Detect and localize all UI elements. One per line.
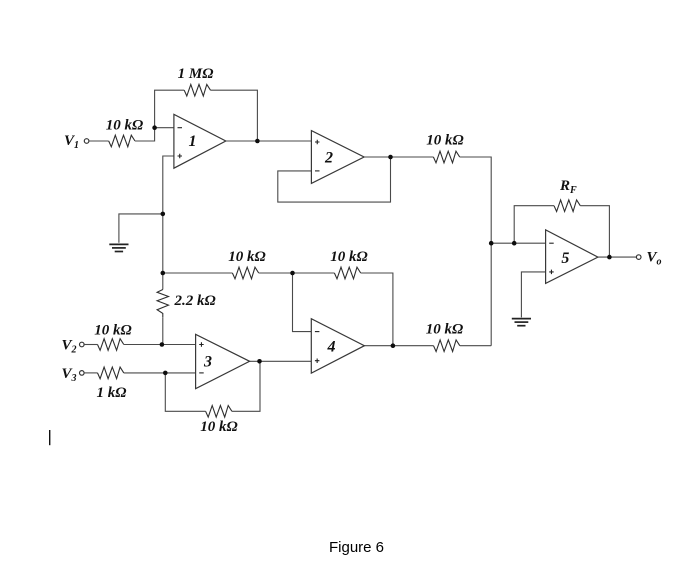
svg-text:3: 3 bbox=[203, 354, 212, 371]
node V2 terminal bbox=[80, 342, 85, 347]
svg-text:2: 2 bbox=[324, 150, 333, 167]
ground (left) bbox=[109, 244, 128, 251]
wire node to 10k (to op-amp 4) bbox=[163, 272, 233, 274]
text cursor artifact bbox=[49, 430, 50, 445]
svg-text:2.2 kΩ: 2.2 kΩ bbox=[174, 293, 216, 309]
node J7 (V2 node) bbox=[160, 342, 165, 347]
op-amp U4 bbox=[311, 319, 364, 373]
resistor 10 kOhm (op-amp 3 feedback) bbox=[206, 405, 232, 417]
pin plus U5 bbox=[549, 270, 554, 275]
svg-text:RF: RF bbox=[559, 178, 577, 196]
op-amp U2 bbox=[311, 131, 364, 184]
wire V2 R to op-amp 3 noninverting input bbox=[124, 344, 196, 346]
node V1 input terminal bbox=[84, 139, 89, 144]
pin plus U2 bbox=[315, 140, 320, 145]
wire op-amp 2 output bbox=[364, 156, 433, 158]
svg-text:10 kΩ: 10 kΩ bbox=[200, 419, 237, 435]
svg-text:10 kΩ: 10 kΩ bbox=[330, 249, 367, 265]
pin plus U1 bbox=[178, 154, 183, 159]
pin minus U2 bbox=[315, 170, 320, 172]
wire vertical node chain bbox=[162, 214, 164, 290]
node J12 (RF tap) bbox=[512, 241, 517, 246]
resistor 2.2 kOhm (vertical) bbox=[157, 290, 168, 318]
svg-text:1 MΩ: 1 MΩ bbox=[178, 66, 214, 82]
resistor 10 kOhm (V1 input) bbox=[109, 135, 135, 147]
svg-text:1 kΩ: 1 kΩ bbox=[97, 385, 127, 401]
op-amp U5 bbox=[546, 230, 598, 284]
wire op-amp 3 feedback down bbox=[165, 373, 205, 411]
svg-text:10 kΩ: 10 kΩ bbox=[426, 133, 463, 149]
node Vo terminal bbox=[636, 255, 641, 260]
wire summing node to op-amp 5 bbox=[491, 242, 545, 244]
wire summing vertical bbox=[460, 157, 492, 346]
wire V3 R to op-amp 3 inverting input bbox=[124, 372, 196, 374]
wire op-amp 4 feedback right down bbox=[361, 273, 393, 346]
wire 2.2k to V2 node bbox=[162, 317, 164, 344]
wire op-amp 1 noninverting input down bbox=[163, 156, 174, 214]
node J10 (U4 output) bbox=[391, 343, 396, 348]
pin plus U3 bbox=[199, 342, 204, 347]
wire op-amp 1 feedback left/top bbox=[155, 90, 185, 128]
resistor RF bbox=[554, 200, 580, 212]
wire RF feedback bbox=[514, 206, 554, 244]
wire feedback right down to output bbox=[211, 90, 258, 141]
svg-text:10 kΩ: 10 kΩ bbox=[94, 323, 131, 339]
svg-text:V2: V2 bbox=[62, 338, 77, 356]
node V3 terminal bbox=[80, 371, 85, 376]
svg-text:1: 1 bbox=[189, 133, 197, 150]
wire op-amp 1 output to op-amp 2 bbox=[226, 140, 312, 142]
wire to op-amp 4 inverting node bbox=[259, 272, 335, 274]
svg-text:Vo: Vo bbox=[647, 250, 662, 268]
resistor 10 kOhm (V2 input) bbox=[98, 339, 124, 351]
wire op-amp 4 inverting input bbox=[293, 273, 312, 332]
pin plus U4 bbox=[315, 358, 320, 363]
svg-text:10 kΩ: 10 kΩ bbox=[106, 118, 143, 134]
pin minus U4 bbox=[315, 331, 320, 333]
node J3 (U2 output) bbox=[388, 155, 393, 160]
op-amp U3 bbox=[196, 334, 250, 388]
node J9 (U3 output) bbox=[257, 359, 262, 364]
wire op-amp 5 noninverting input to ground bbox=[521, 272, 545, 318]
pin minus U5 bbox=[549, 242, 554, 244]
resistor 10 kOhm (op-amp 4 output) bbox=[434, 340, 460, 352]
wire op-amp 5 output to Vo bbox=[598, 256, 637, 258]
node J4 (ground branch) bbox=[161, 212, 166, 217]
resistor 1 MOhm (op-amp 1 feedback) bbox=[184, 84, 210, 96]
resistor 10 kOhm (op-amp 2 output) bbox=[433, 151, 459, 163]
node J8 (V3 node) bbox=[163, 371, 168, 376]
wire RF right down to output bbox=[580, 206, 609, 257]
wire op-amp 2 feedback loop bbox=[278, 157, 391, 202]
wire feedback up to op-amp 3 output bbox=[232, 361, 260, 411]
node J1 (V1 R / U1 inv / feedback) bbox=[152, 125, 157, 130]
wire to summing vertical bbox=[460, 345, 491, 347]
resistor 10 kOhm (op-amp 4 feedback) bbox=[334, 267, 360, 279]
wire to ground 1 bbox=[119, 214, 163, 243]
node J11 (summing node) bbox=[489, 241, 494, 246]
node J5 (2.2k top) bbox=[161, 271, 166, 276]
svg-text:10 kΩ: 10 kΩ bbox=[228, 249, 265, 265]
ground (op-amp 5) bbox=[512, 319, 531, 326]
resistor 10 kOhm (node to op-amp 4) bbox=[232, 267, 258, 279]
wire op-amp 3 output to op-amp 4 noninverting input bbox=[250, 360, 312, 362]
op-amp U1 bbox=[174, 114, 226, 168]
wire V3 bbox=[84, 372, 97, 374]
pin minus U3 bbox=[199, 372, 204, 374]
resistor 1 kOhm (V3 input) bbox=[98, 367, 124, 379]
node J2 (U1 output) bbox=[255, 139, 260, 144]
svg-text:5: 5 bbox=[561, 250, 569, 267]
svg-text:Figure 6: Figure 6 bbox=[329, 539, 384, 556]
wire R to op-amp 1 inverting input bbox=[135, 128, 174, 141]
svg-text:V3: V3 bbox=[62, 366, 77, 384]
svg-text:10 kΩ: 10 kΩ bbox=[426, 322, 463, 338]
pin minus U1 bbox=[178, 127, 183, 129]
node J13 (U5 output) bbox=[607, 255, 612, 260]
svg-text:V1: V1 bbox=[64, 133, 79, 151]
wire V2 bbox=[84, 344, 97, 346]
node J6 (U4 inverting) bbox=[290, 271, 295, 276]
wire op-amp 4 output bbox=[364, 345, 433, 347]
svg-text:4: 4 bbox=[327, 339, 336, 356]
wire V1 to R input bbox=[89, 140, 109, 142]
